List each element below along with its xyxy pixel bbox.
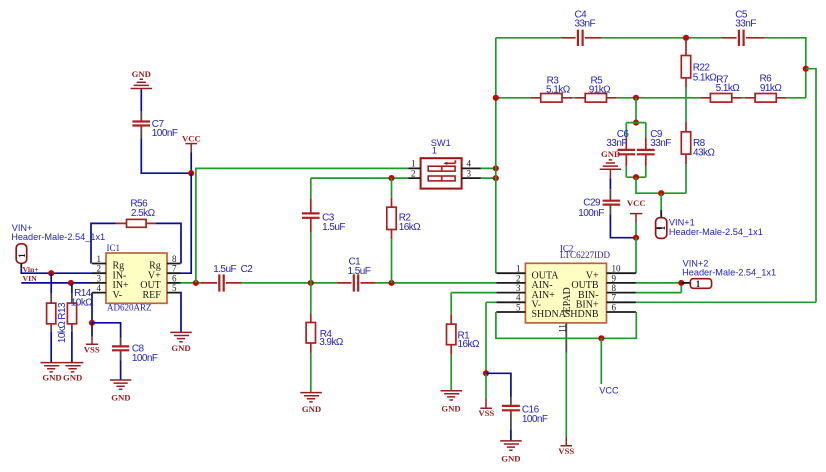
wire (SW1 pin2 net) [311, 177, 408, 179]
svg-text:VIN: VIN [23, 274, 38, 283]
node [493, 165, 499, 171]
svg-text:1: 1 [516, 264, 521, 274]
svg-text:43kΩ: 43kΩ [693, 148, 715, 159]
svg-text:GND: GND [132, 69, 151, 79]
node [658, 190, 664, 196]
wire (row to C6/C9 block) [635, 98, 637, 123]
ground GND (R13) [41, 363, 63, 383]
svg-text:91kΩ: 91kΩ [589, 84, 611, 95]
svg-text:1: 1 [432, 146, 437, 156]
connector VIN+1 Header-Male-2.54_1x1 [656, 193, 763, 238]
svg-text:1.5uF: 1.5uF [322, 222, 345, 233]
node [193, 280, 199, 286]
node [48, 270, 54, 276]
svg-text:5.1kΩ: 5.1kΩ [716, 83, 741, 94]
svg-text:VSS: VSS [478, 408, 494, 418]
resistor R7 [700, 74, 742, 102]
wire (top feedback net) [496, 38, 806, 98]
svg-text:6: 6 [172, 273, 177, 283]
node [633, 95, 639, 101]
svg-text:5.1kΩ: 5.1kΩ [546, 84, 571, 95]
svg-text:100nF: 100nF [132, 353, 158, 364]
svg-text:GND: GND [111, 393, 130, 403]
svg-text:1: 1 [17, 253, 27, 258]
svg-text:2.5kΩ: 2.5kΩ [131, 208, 156, 219]
node [483, 370, 489, 376]
resistor R14 [67, 283, 93, 362]
svg-text:3.9kΩ: 3.9kΩ [319, 337, 344, 348]
wire [140, 89, 142, 111]
svg-text:2: 2 [411, 168, 416, 178]
node [803, 66, 809, 72]
svg-text:11: 11 [557, 324, 567, 333]
node VCC junction [188, 170, 194, 176]
svg-text:LTC6227IDD: LTC6227IDD [560, 250, 611, 260]
capacitor C6 [606, 123, 646, 178]
svg-text:1: 1 [696, 279, 701, 289]
svg-text:AD620ARZ: AD620ARZ [107, 303, 152, 313]
node [388, 175, 394, 181]
node [598, 335, 604, 341]
resistor R56 [91, 199, 181, 264]
svg-text:Header-Male-2.54_1x1: Header-Male-2.54_1x1 [682, 267, 776, 277]
power flag VCC [182, 133, 201, 152]
ground GND (above C7) [131, 69, 152, 89]
ground GND (R14) [62, 363, 84, 383]
wire VIN [21, 282, 92, 284]
svg-text:4: 4 [97, 283, 102, 293]
svg-text:Header-Male-2.54_1x1: Header-Male-2.54_1x1 [11, 232, 105, 242]
resistor R8 [681, 122, 715, 193]
capacitor C9 [637, 123, 671, 178]
wire [181, 173, 192, 273]
svg-text:5.1kΩ: 5.1kΩ [693, 72, 718, 83]
svg-text:GND: GND [302, 404, 321, 414]
svg-text:100nF: 100nF [578, 208, 604, 219]
capacitor C7 [132, 111, 177, 139]
node [633, 174, 639, 180]
svg-text:8: 8 [612, 283, 617, 293]
resistor R2 [387, 178, 421, 283]
node [388, 280, 394, 286]
resistor R13 [47, 273, 68, 362]
wire (R3/R5/R7/R6 row) [496, 97, 806, 99]
wire (OUTB to BIN- and VIN+2) [636, 283, 681, 293]
resistor R4 [306, 283, 344, 392]
wire Vin+ [21, 268, 92, 273]
ground GND (above C29) [600, 149, 621, 178]
wire (vertical bus x=495.8) [495, 38, 497, 273]
resistor R22 [681, 40, 717, 122]
svg-text:GND: GND [601, 149, 620, 159]
svg-text:2: 2 [97, 264, 102, 274]
node [493, 175, 499, 181]
svg-text:10kΩ: 10kΩ [71, 298, 93, 309]
connector VIN+ Header-Male-2.54_1x1 [11, 223, 105, 268]
connector VIN+2 Header-Male-2.54_1x1 [681, 258, 776, 289]
svg-text:5: 5 [516, 302, 521, 312]
svg-text:VSS: VSS [558, 446, 574, 456]
ground GND (R4) [300, 393, 322, 414]
svg-text:Vin+: Vin+ [23, 265, 40, 274]
svg-text:9: 9 [612, 273, 617, 283]
svg-text:GND: GND [441, 403, 460, 413]
svg-text:VSS: VSS [84, 344, 100, 354]
node [89, 320, 95, 326]
ground GND (R1) [441, 391, 463, 414]
svg-text:8: 8 [172, 254, 177, 264]
resistor R3 [531, 76, 573, 103]
wire (SW1 right pins to bus) [481, 168, 496, 178]
svg-text:33nF: 33nF [650, 138, 671, 149]
svg-text:VCC: VCC [599, 385, 619, 395]
svg-text:91kΩ: 91kΩ [760, 83, 782, 94]
capacitor C29 [578, 178, 636, 238]
svg-text:GND: GND [42, 372, 61, 382]
svg-text:100nF: 100nF [152, 128, 178, 139]
svg-text:VCC: VCC [627, 198, 646, 208]
wire (REF to GND) [180, 293, 183, 332]
node [68, 280, 74, 286]
wire [141, 138, 191, 173]
node [308, 280, 314, 286]
wire OUT net [181, 282, 497, 284]
wire (to VCC net label) [600, 338, 602, 384]
power flag VSS [84, 323, 100, 355]
capacitor C2 [201, 264, 254, 291]
svg-text:3: 3 [97, 273, 102, 283]
power flag VSS (V-) [478, 373, 494, 418]
node [683, 35, 689, 41]
capacitor C16 [486, 373, 548, 440]
svg-text:16kΩ: 16kΩ [458, 339, 480, 350]
svg-text:7: 7 [612, 293, 617, 303]
power flag VSS (EPAD) [558, 353, 574, 456]
op-amp IC2 LTC6227IDD [496, 243, 636, 352]
svg-text:6: 6 [612, 302, 617, 312]
svg-text:100nF: 100nF [522, 414, 548, 425]
svg-text:10: 10 [612, 264, 622, 274]
svg-text:Header-Male-2.54_1x1: Header-Male-2.54_1x1 [669, 227, 763, 237]
svg-text:VCC: VCC [182, 133, 201, 143]
wire (OUT riser to SW1 pin1) [196, 168, 408, 283]
svg-text:GND: GND [171, 343, 190, 353]
wire (SHDNA/SHDNB loop) [496, 312, 636, 338]
ground GND (C16) [500, 441, 522, 464]
svg-text:10kΩ: 10kΩ [57, 321, 68, 343]
switch SW1 [408, 138, 481, 189]
ground GND (C8) [110, 380, 131, 403]
svg-text:GND: GND [63, 372, 82, 382]
wire (V- net) [486, 302, 496, 373]
node [633, 120, 639, 126]
resistor R1 [447, 293, 497, 391]
capacitor C1 [337, 256, 375, 291]
svg-text:2: 2 [516, 273, 521, 283]
svg-text:16kΩ: 16kΩ [399, 222, 421, 233]
svg-text:4: 4 [516, 293, 521, 303]
capacitor C5 [721, 9, 764, 46]
svg-text:1: 1 [411, 159, 416, 169]
wire (block bottom to R8) [636, 177, 686, 193]
svg-text:EPAD: EPAD [562, 287, 573, 312]
svg-text:GND: GND [501, 454, 520, 464]
svg-text:1: 1 [657, 225, 667, 230]
svg-text:5: 5 [172, 283, 177, 293]
power flag VCC (C29) [627, 198, 646, 238]
svg-text:33nF: 33nF [606, 138, 627, 149]
node [493, 95, 499, 101]
node [678, 280, 684, 286]
wire (BIN+ net) [636, 301, 816, 303]
ground GND (IC1 REF) [170, 332, 192, 353]
capacitor C4 [561, 9, 601, 46]
svg-text:33nF: 33nF [735, 19, 756, 30]
svg-text:V-: V- [113, 290, 123, 301]
wire (to BIN+ column) [806, 69, 816, 303]
svg-text:7: 7 [172, 264, 177, 274]
svg-text:REF: REF [142, 290, 161, 301]
svg-text:33nF: 33nF [575, 19, 596, 30]
wire [190, 152, 192, 173]
svg-text:3: 3 [516, 283, 521, 293]
wire (VCC to IC2 V+) [635, 238, 637, 274]
svg-text:1.5uF: 1.5uF [213, 264, 236, 275]
svg-text:1: 1 [97, 254, 102, 264]
node [633, 235, 639, 241]
svg-text:C2: C2 [241, 264, 254, 275]
capacitor C8 [92, 323, 158, 380]
capacitor C3 [302, 178, 345, 283]
svg-text:C29: C29 [583, 198, 601, 209]
wire (IC1 pin4 to VSS node) [91, 293, 93, 323]
svg-text:3: 3 [467, 168, 472, 178]
svg-text:4: 4 [467, 159, 472, 169]
op-amp IC1 AD620ARZ [92, 243, 181, 313]
resistor R6 [745, 74, 786, 103]
svg-text:R13: R13 [57, 302, 68, 320]
svg-text:IC1: IC1 [107, 243, 121, 253]
resistor R5 [575, 76, 617, 103]
